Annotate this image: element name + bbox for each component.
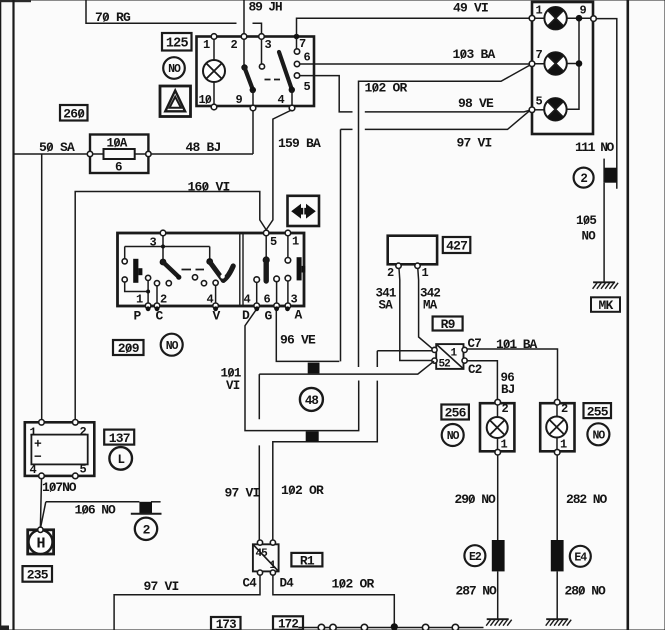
- wire 48 BJ: [151, 111, 253, 155]
- svg-text:282 NO: 282 NO: [566, 492, 608, 507]
- wire 106 NO: [41, 502, 140, 528]
- flasher unit 427 box: [388, 236, 437, 265]
- connector 48 block bottom: [306, 431, 319, 441]
- svg-text:2: 2: [143, 523, 151, 538]
- svg-text:5: 5: [304, 80, 311, 94]
- wire 341 SA: [399, 269, 433, 361]
- svg-text:2: 2: [160, 293, 167, 307]
- svg-text:BJ: BJ: [501, 383, 515, 397]
- svg-text:173: 173: [216, 618, 236, 630]
- svg-text:SA: SA: [379, 299, 394, 313]
- svg-text:160 VI: 160 VI: [188, 180, 230, 195]
- svg-text:NO: NO: [582, 230, 597, 244]
- circle E2: [464, 545, 485, 566]
- lamp pin 1: [529, 15, 535, 21]
- wire 96 BJ: [467, 361, 497, 399]
- label box R1: [291, 553, 322, 567]
- svg-text:48 BJ: 48 BJ: [186, 140, 221, 155]
- svg-text:2: 2: [231, 38, 238, 52]
- wire 97 VI upper: [341, 111, 530, 130]
- svg-text:255: 255: [587, 404, 609, 419]
- wire 102 OR bottom: [273, 575, 394, 625]
- label box 125: [162, 33, 192, 51]
- svg-text:97 VI: 97 VI: [457, 136, 492, 151]
- svg-text:70 RG: 70 RG: [95, 10, 131, 25]
- pin3 internal wiring of 209: [125, 236, 210, 260]
- svg-text:52: 52: [439, 358, 451, 370]
- P section contact bar: [122, 259, 127, 264]
- svg-text:287 NO: 287 NO: [456, 584, 498, 599]
- wire 50 SA: [15, 153, 88, 155]
- contacts 4 6 3 of 209: [254, 277, 260, 283]
- svg-text:101 BA: 101 BA: [496, 337, 538, 352]
- svg-text:G: G: [265, 309, 273, 324]
- svg-text:102 OR: 102 OR: [281, 483, 324, 498]
- svg-text:7: 7: [299, 37, 306, 51]
- svg-text:MA: MA: [423, 299, 438, 313]
- wire 97 VI bottom: [114, 575, 260, 630]
- svg-text:97 VI: 97 VI: [144, 579, 179, 594]
- svg-text:1: 1: [560, 438, 567, 452]
- ground E2: [487, 618, 509, 620]
- connector block 111 NO: [605, 168, 617, 183]
- wire 52 to 45 (via line): [273, 351, 432, 540]
- wire 290 NO: [497, 455, 499, 540]
- svg-text:2: 2: [387, 266, 394, 280]
- wire 102 OR: [359, 65, 532, 368]
- wire 159 BA: [266, 110, 291, 230]
- svg-text:9: 9: [236, 93, 243, 107]
- junction wire inside lamp unit: [567, 18, 579, 109]
- ground MK: [593, 281, 615, 283]
- connector block E2: [492, 540, 505, 571]
- svg-text:E2: E2: [469, 551, 482, 564]
- switch lever P-C of 209: [160, 259, 167, 266]
- svg-text:159 BA: 159 BA: [278, 136, 321, 151]
- svg-text:4: 4: [278, 93, 285, 107]
- repeater lamp box (right): [540, 403, 574, 451]
- lamp inside 125: [213, 39, 215, 105]
- bottom connector bus: [298, 627, 483, 629]
- svg-text:E4: E4: [574, 551, 587, 564]
- NO circle near 209: [161, 334, 183, 356]
- svg-text:280 NO: 280 NO: [565, 584, 607, 599]
- pin 4 of 125: [289, 105, 295, 111]
- wire 111 NO: [596, 19, 617, 189]
- svg-text:48: 48: [305, 394, 319, 408]
- svg-text:10: 10: [199, 93, 212, 107]
- svg-text:3: 3: [291, 293, 298, 307]
- direction arrows icon: [288, 196, 320, 226]
- dashes of 209: [182, 269, 205, 271]
- connector 48 block top: [308, 363, 320, 374]
- svg-text:50 SA: 50 SA: [39, 140, 75, 155]
- repeater lamp box (left): [480, 403, 514, 451]
- svg-text:1: 1: [536, 4, 543, 18]
- svg-text:6: 6: [264, 293, 271, 307]
- svg-text:C2: C2: [468, 363, 482, 377]
- pin 3 of 125: [259, 34, 265, 40]
- label box R9: [433, 317, 463, 331]
- pin 2 of 125: [241, 34, 247, 40]
- label box 260: [60, 105, 88, 121]
- label box 209: [113, 340, 144, 355]
- unit 137 box: [25, 422, 95, 476]
- pin 9 of 125: [250, 105, 256, 111]
- fuse 10A box: [90, 135, 148, 174]
- svg-text:89 JH: 89 JH: [249, 0, 282, 15]
- svg-text:6: 6: [115, 161, 122, 175]
- svg-text:97 VI: 97 VI: [225, 486, 260, 501]
- svg-text:D4: D4: [280, 577, 295, 591]
- wire 287 NO: [497, 571, 499, 618]
- label box 256: [441, 405, 469, 420]
- lamp pin 7: [529, 61, 535, 67]
- dashed link in 125: [265, 79, 281, 81]
- L circle: [109, 447, 132, 470]
- pin 1 of 209: [285, 230, 291, 236]
- right section pin5 lever of 209: [265, 236, 267, 258]
- svg-text:NO: NO: [166, 340, 179, 353]
- NO circle near 256: [442, 424, 464, 446]
- svg-text:427: 427: [446, 239, 467, 254]
- svg-text:137: 137: [109, 431, 130, 446]
- switch lever pins 2-9 of 125: [243, 39, 245, 66]
- circle 2 (top right): [574, 168, 594, 188]
- lamp 5 (bottom): [535, 109, 545, 111]
- svg-text:3: 3: [265, 38, 272, 52]
- svg-text:VI: VI: [226, 379, 240, 393]
- svg-text:6: 6: [304, 51, 311, 65]
- wire 97 VI middle: [259, 361, 434, 374]
- svg-text:1: 1: [203, 38, 210, 52]
- label box 137: [104, 430, 134, 445]
- svg-text:290 NO: 290 NO: [455, 492, 497, 507]
- wire 89 JH: [243, 0, 245, 37]
- label box 427: [443, 237, 471, 253]
- svg-text:P: P: [134, 309, 142, 324]
- lamp pin 5: [529, 107, 535, 113]
- svg-text:125: 125: [166, 37, 189, 52]
- svg-text:5: 5: [536, 95, 543, 109]
- ground E4: [546, 618, 568, 620]
- svg-text:5: 5: [270, 235, 277, 249]
- svg-text:256: 256: [445, 406, 467, 421]
- wire 101 BA: [467, 349, 557, 399]
- connector 45 box: [253, 544, 279, 571]
- circle 48: [300, 388, 323, 411]
- bottom edge pins of 209: [145, 303, 151, 309]
- svg-text:98 VE: 98 VE: [458, 96, 494, 111]
- svg-text:2: 2: [561, 402, 568, 416]
- contacts 7 6 5 of 125: [296, 38, 298, 49]
- svg-text:D: D: [242, 308, 250, 323]
- lamp 1 (top): [535, 17, 592, 19]
- NO circle near 255: [587, 423, 609, 445]
- svg-text:C4: C4: [243, 577, 258, 591]
- svg-text:R1: R1: [300, 553, 315, 568]
- label box 255: [584, 403, 612, 418]
- lamp 7 (middle): [535, 63, 577, 65]
- svg-text:2: 2: [502, 402, 509, 416]
- connector block E4: [551, 540, 564, 571]
- svg-text:V: V: [213, 309, 221, 324]
- V lever of 209: [206, 258, 213, 265]
- svg-text:96 VE: 96 VE: [280, 333, 316, 348]
- pin 2 of 427: [396, 263, 401, 268]
- svg-text:4: 4: [30, 463, 37, 477]
- wire 160 VI: [75, 192, 266, 421]
- wire 105 NO: [603, 183, 605, 282]
- svg-text:C: C: [156, 309, 164, 324]
- wire 282 NO: [556, 455, 558, 540]
- svg-text:7: 7: [536, 48, 543, 62]
- circle E4: [570, 546, 591, 567]
- svg-text:2: 2: [580, 172, 587, 186]
- NO circle near 125: [163, 57, 185, 79]
- svg-text:111 NO: 111 NO: [575, 140, 615, 155]
- wire 280 NO: [556, 571, 558, 618]
- svg-text:3: 3: [150, 236, 157, 250]
- wire 96 VE: [276, 311, 339, 361]
- svg-text:49 VI: 49 VI: [453, 1, 488, 16]
- svg-text:1: 1: [501, 438, 508, 452]
- svg-text:103 BA: 103 BA: [453, 47, 496, 62]
- contact pin 3 of 125: [261, 39, 263, 64]
- label box 172: [273, 616, 303, 630]
- wire 103 BA: [314, 63, 530, 65]
- pin 7 of 125: [294, 34, 300, 40]
- svg-text:172: 172: [278, 618, 298, 630]
- svg-text:5: 5: [80, 463, 87, 477]
- svg-text:NO: NO: [447, 430, 460, 443]
- circle 2 (near 106 NO): [135, 518, 157, 540]
- connector block 106 NO: [151, 501, 161, 503]
- svg-text:235: 235: [27, 568, 49, 583]
- connector 52 box: [436, 344, 463, 369]
- svg-text:NO: NO: [168, 63, 181, 76]
- V contacts of 209: [192, 275, 197, 280]
- svg-text:260: 260: [63, 106, 85, 121]
- pin 10 of 125: [211, 104, 217, 110]
- pin 3 of 209: [160, 230, 166, 236]
- switch lever pins 7-4 of 125: [279, 52, 292, 89]
- wire 107 NO: [40, 479, 41, 528]
- pin 1 of 427: [415, 263, 420, 268]
- svg-text:107NO: 107NO: [42, 480, 77, 495]
- turn signal lamp unit box (top right): [532, 2, 593, 134]
- svg-text:106 NO: 106 NO: [75, 503, 117, 518]
- hazard warning switch 125 box: [197, 37, 315, 107]
- svg-text:MK: MK: [598, 298, 613, 313]
- svg-text:45: 45: [256, 548, 269, 560]
- hazard triangle icon: [160, 86, 191, 117]
- wire 98 VE: [314, 76, 530, 112]
- svg-text:1: 1: [292, 235, 299, 249]
- svg-text:1: 1: [422, 266, 429, 280]
- svg-text:R9: R9: [441, 317, 456, 332]
- label box 235: [23, 566, 53, 582]
- label box 173: [211, 617, 241, 630]
- svg-text:102 OR: 102 OR: [365, 81, 408, 96]
- lighting/indicator switch 209 box: [118, 233, 305, 306]
- pin 1 of 125: [211, 34, 217, 40]
- svg-text:NO: NO: [592, 429, 605, 442]
- horn unit H box: [28, 530, 54, 554]
- svg-text:2: 2: [80, 425, 87, 439]
- wire 70 RG: [86, 0, 262, 37]
- svg-text:H: H: [36, 535, 44, 552]
- svg-text:102 OR: 102 OR: [332, 577, 375, 592]
- pin 5 of 209: [263, 230, 269, 236]
- C contacts of 209: [154, 281, 159, 286]
- label box MK: [591, 297, 620, 312]
- svg-text:1: 1: [136, 293, 143, 307]
- svg-text:A: A: [295, 308, 303, 323]
- lamp pin 9: [591, 16, 597, 22]
- right section pin1 contact bar of 209: [287, 236, 289, 258]
- wire 49 VI: [297, 18, 531, 35]
- svg-text:L: L: [117, 453, 124, 467]
- wire 342 MA: [418, 269, 433, 349]
- svg-text:4: 4: [244, 293, 251, 307]
- svg-text:−: −: [34, 450, 42, 465]
